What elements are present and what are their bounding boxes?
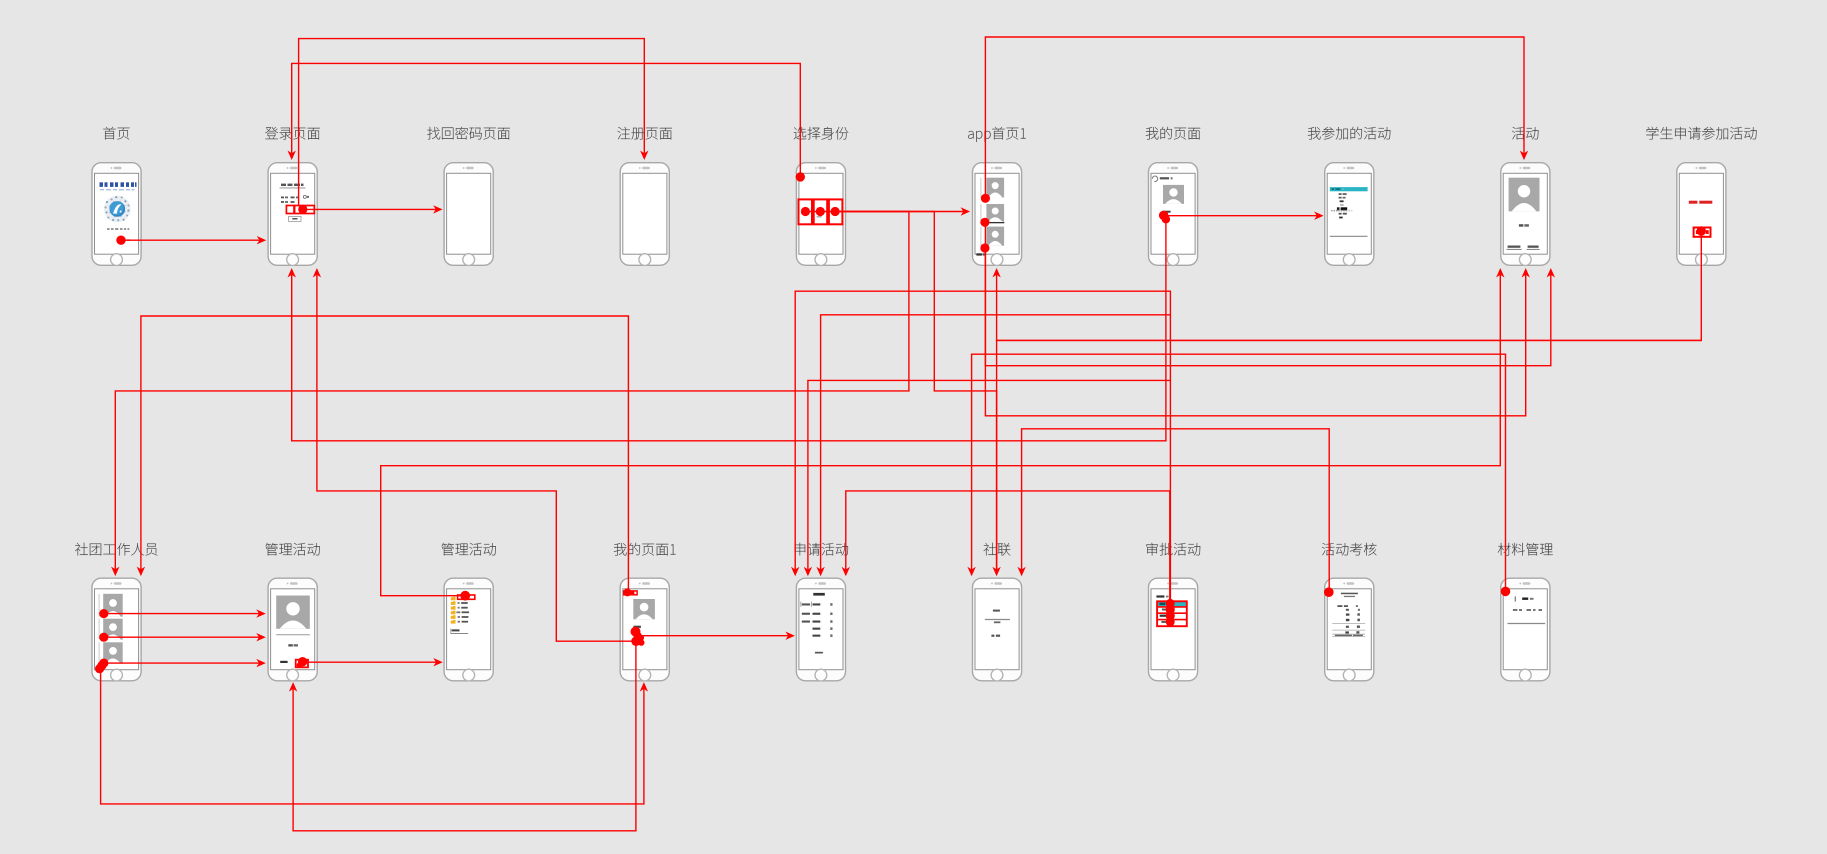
phone 管理活动 frame xyxy=(268,578,317,681)
label 申请活动 (bottom row 5) xyxy=(795,543,848,556)
phone 社团工作人员 screen content: staff list xyxy=(99,594,123,664)
phone 申请活动 frame xyxy=(796,578,845,681)
phone 社团工作人员 frame xyxy=(92,578,141,681)
wire 登录页面(注册) → 注册页面 xyxy=(299,39,649,207)
label 首页 (top row 1) xyxy=(103,127,129,140)
phone 我参加的活动 screen content: activity list xyxy=(1330,187,1368,236)
phone 申请活动 screen content: application form xyxy=(801,593,833,654)
phone 选择身份 screen content: three identity cells xyxy=(799,199,843,224)
label 管理活动 (bottom row 2) xyxy=(265,543,319,556)
phone 我参加的活动 frame xyxy=(1325,163,1374,266)
label 找回密码页面 (top row 3) xyxy=(427,127,510,140)
label 我的页面 (top row 7) xyxy=(1146,127,1200,140)
wire 材料管理 → 社联 xyxy=(967,354,1510,596)
wire app首页1(成员2) → 活动 xyxy=(980,218,1555,366)
label 登录页面 (top row 2) xyxy=(265,127,320,140)
wire 我的页面1 → 申请活动 xyxy=(638,632,795,640)
wire 选择身份 → 社联 xyxy=(835,212,1001,577)
wire 审批活动(行4) → 申请活动 xyxy=(842,491,1170,601)
phone 登录页面 frame xyxy=(268,163,317,266)
wire 社团工作人员(成员2) → 管理活动 xyxy=(99,633,266,642)
label 学生申请参加活动 (top row 10) xyxy=(1646,127,1756,140)
label 社团工作人员 (bottom row 1) xyxy=(75,543,157,556)
phone 找回密码页面 frame xyxy=(444,163,493,266)
wire app首页1(成员1) → 活动(顶部) xyxy=(981,37,1528,203)
label 审批活动 (bottom row 7) xyxy=(1146,543,1200,556)
phone 社联 frame xyxy=(973,578,1022,681)
wire 管理活动(按钮) → 管理活动2 xyxy=(297,657,443,668)
wire 社团工作人员 → 我的页面1 xyxy=(95,659,648,804)
phone 学生申请参加活动 frame xyxy=(1677,163,1726,266)
phone 管理活动 screen content: profile + button xyxy=(276,596,310,668)
phone 活动 frame xyxy=(1501,163,1550,266)
wire 审批活动(行3) → 申请活动 xyxy=(816,315,1170,577)
wire 首页 → 登录页面 xyxy=(116,236,266,245)
phone 登录页面 screen content: login form xyxy=(280,184,315,222)
phone 管理活动2 frame xyxy=(444,578,493,681)
wire 审批活动 表格节点 xyxy=(1166,599,1175,626)
phone 审批活动 screen content: approval table xyxy=(1156,595,1186,626)
phone 我的页面 frame xyxy=(1149,163,1198,266)
phone 社联 screen content xyxy=(985,610,1010,637)
label app首页1 (top row 6) xyxy=(968,127,1026,142)
label 材料管理 (bottom row 9) xyxy=(1498,543,1553,556)
wire app首页1(成员3) → 活动 xyxy=(980,243,1530,415)
wire 选择身份(返回) → 登录页面 xyxy=(288,63,806,181)
label 选择身份 (top row 5) xyxy=(794,127,849,140)
phone 审批活动 frame xyxy=(1149,578,1198,681)
wire 选择身份 → app首页1 xyxy=(801,207,970,216)
wire 我的页面1 → 管理活动(底部) xyxy=(289,643,636,831)
phone 选择身份 frame xyxy=(796,163,845,266)
wire 审批活动(行1) → 申请活动 xyxy=(791,291,1170,601)
phone 活动 screen content: big avatar xyxy=(1507,178,1540,250)
wire 审批活动(行2) → 申请活动 xyxy=(804,380,1171,576)
phone 我的页面1 screen content: profile xyxy=(624,591,655,628)
label 社联 (bottom row 6) xyxy=(984,543,1011,556)
phone 首页 screen content: university logo xyxy=(100,182,137,241)
phone 管理活动2 screen content: folder list xyxy=(451,597,469,634)
wire 学生申请参加活动 → app首页1 xyxy=(992,226,1706,340)
wire 我的页面(退出) → 登录页面 xyxy=(288,211,1171,441)
label 活动 (top row 9) xyxy=(1512,127,1538,140)
phone 我的页面 screen content: profile xyxy=(1152,176,1184,213)
wire 登录页面(找回密码按钮) → 找回密码页面 xyxy=(298,205,442,214)
phone app首页1 screen content: member list xyxy=(976,178,1004,256)
wire 我的页面 → 我参加的活动 xyxy=(1166,212,1324,220)
wire 活动考核 → 社联 xyxy=(1017,429,1333,597)
wire 社团工作人员(成员1) → 管理活动 xyxy=(99,609,266,618)
label 我的页面1 (bottom row 4) xyxy=(614,543,676,556)
phone 材料管理 frame xyxy=(1501,578,1550,681)
phone 我的页面1 frame xyxy=(620,578,669,681)
label 管理活动 (bottom row 3) xyxy=(442,543,496,556)
label 我参加的活动 (top row 8) xyxy=(1308,127,1390,140)
label 活动考核 (bottom row 8) xyxy=(1322,543,1377,556)
phone 活动考核 frame xyxy=(1325,578,1374,681)
wire 管理活动2(活动项) → 活动 xyxy=(381,268,1505,601)
phone 首页 frame xyxy=(92,163,141,266)
phone 学生申请参加活动 screen content: red text + apply button xyxy=(1689,201,1713,237)
wire 我的页面1(退出) → 登录页面 xyxy=(313,268,645,646)
phone 注册页面 frame xyxy=(620,163,669,266)
wire 社团工作人员(成员3) → 管理活动 xyxy=(104,659,266,667)
wire 我的页面1(返回) → 社团工作人员 xyxy=(137,316,632,596)
phone 活动考核 screen content: assessment form xyxy=(1332,593,1365,637)
label 注册页面 (top row 4) xyxy=(617,127,671,140)
wire 选择身份 → 社团工作人员 xyxy=(111,212,909,577)
phone app首页1 frame xyxy=(973,163,1022,266)
wire 学生申请参加活动 → 社联 xyxy=(997,340,1702,569)
phone 材料管理 screen content xyxy=(1508,596,1546,623)
